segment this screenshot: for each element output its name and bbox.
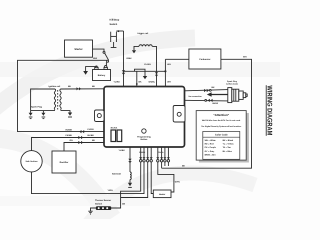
svg-text:GY = Gray: GY = Gray xyxy=(205,150,216,153)
svg-text:Switch: Switch xyxy=(110,23,118,26)
svg-text:GN: GN xyxy=(122,203,126,206)
wire carb right loop xyxy=(162,59,252,168)
svg-text:BK: BK xyxy=(139,80,143,83)
connector J1 xyxy=(114,57,133,84)
watermark swirl background xyxy=(0,38,255,225)
svg-text:WH = White: WH = White xyxy=(205,139,217,142)
svg-text:GN: GN xyxy=(70,139,74,142)
svg-text:Solenoid: Solenoid xyxy=(112,173,122,176)
ground battery xyxy=(83,67,96,75)
wire main battery vertical xyxy=(123,31,125,87)
ECU pins group A xyxy=(139,147,153,163)
node bus-carb junction xyxy=(164,70,166,72)
svg-text:GN YL: GN YL xyxy=(158,151,165,154)
spark plug right xyxy=(226,80,247,103)
svg-text:BK: BK xyxy=(212,86,216,89)
svg-text:Switch: Switch xyxy=(95,202,103,205)
fuse F1 F2 xyxy=(111,126,122,141)
spark plug left pair xyxy=(29,106,46,119)
svg-text:WH: WH xyxy=(167,63,171,66)
wire stator bottom loop xyxy=(32,163,145,194)
svg-text:R/BK: R/BK xyxy=(127,57,133,60)
svg-text:PK/BK: PK/BK xyxy=(66,134,73,137)
svg-text:WH: WH xyxy=(243,56,247,59)
svg-text:YL/WH: YL/WH xyxy=(144,63,151,66)
ECU pins group B xyxy=(156,147,170,166)
svg-text:YL/RD: YL/RD xyxy=(114,80,121,83)
svg-text:GN/BL: GN/BL xyxy=(149,80,156,83)
ignition coil T1 xyxy=(31,85,73,117)
svg-text:30 20A: 30 20A xyxy=(111,126,118,129)
wire B1 to heater right xyxy=(158,163,174,192)
svg-text:Rectifier: Rectifier xyxy=(60,161,69,164)
wire A4 to heater xyxy=(151,163,153,194)
wire left frame top xyxy=(18,60,108,131)
svg-text:PW/BK: PW/BK xyxy=(139,151,146,154)
svg-text:BK: BK xyxy=(182,164,186,167)
svg-text:BL = Blue: BL = Blue xyxy=(223,150,233,153)
wire A3 xyxy=(121,163,148,198)
rectifier xyxy=(52,151,76,173)
svg-text:Battery: Battery xyxy=(98,74,106,77)
wire coil output xyxy=(61,88,105,90)
battery BT1 xyxy=(93,66,111,81)
ECU module U1 xyxy=(104,87,185,148)
wire rectifier line1 chevrons xyxy=(79,130,84,133)
svg-text:BK/W: BK/W xyxy=(213,102,219,105)
svg-text:PU/PK: PU/PK xyxy=(88,128,95,131)
svg-text:Heater: Heater xyxy=(159,193,166,196)
wire switch to battery xyxy=(105,62,107,67)
wire bus xyxy=(124,70,166,72)
stator G1 xyxy=(21,151,42,172)
mounting tab left xyxy=(95,110,105,122)
svg-text:Safe Surface: Safe Surface xyxy=(25,160,38,163)
svg-text:(yellow boot): (yellow boot) xyxy=(226,82,238,85)
svg-text:BK: BK xyxy=(68,85,72,88)
svg-text:BR/W = Brn: BR/W = Brn xyxy=(205,153,217,156)
attention panel xyxy=(196,111,249,163)
svg-text:WHITE Wire from the ECU Port i: WHITE Wire from the ECU Port is not used… xyxy=(202,119,241,122)
svg-text:Color Code: Color Code xyxy=(215,134,229,137)
wire kill switch to main vertical xyxy=(116,30,123,32)
svg-text:Starter: Starter xyxy=(74,48,82,51)
node stub dot xyxy=(136,83,138,85)
programming button xyxy=(137,129,151,141)
no-connection arrow xyxy=(189,92,228,98)
svg-text:WH: WH xyxy=(167,80,171,83)
svg-text:Kill/Stop: Kill/Stop xyxy=(110,19,120,22)
svg-text:Button: Button xyxy=(141,138,148,141)
wire rectifier line3 xyxy=(64,143,104,152)
wire stub to ECU xyxy=(136,71,138,86)
svg-text:Spark Plug: Spark Plug xyxy=(31,106,43,109)
ground thermo xyxy=(88,208,96,214)
svg-text:TA = Tan: TA = Tan xyxy=(223,146,232,149)
svg-text:Y/GN: Y/GN xyxy=(108,189,114,192)
kill/stop switch S2 xyxy=(110,19,120,48)
svg-text:YL/BK: YL/BK xyxy=(119,149,126,152)
svg-text:R/W: R/W xyxy=(93,57,97,60)
svg-text:trigger coil: trigger coil xyxy=(138,32,149,35)
solenoid wire xyxy=(112,147,132,187)
heater box xyxy=(153,190,171,198)
key switch S1 xyxy=(93,51,109,62)
color code table xyxy=(203,132,240,160)
svg-text:BL/BK: BL/BK xyxy=(88,134,95,137)
carburetor xyxy=(165,49,221,69)
svg-text:BK: BK xyxy=(92,139,96,142)
svg-text:BK: BK xyxy=(92,85,96,88)
svg-text:RD = Red: RD = Red xyxy=(205,143,215,146)
light band artifact xyxy=(0,62,280,77)
mounting tab right xyxy=(173,106,185,123)
ECU right wires to plug xyxy=(185,90,229,91)
svg-text:Programming: Programming xyxy=(137,135,151,138)
wire A1 to thermo xyxy=(111,163,140,208)
svg-text:G/PU: G/PU xyxy=(175,181,181,184)
ground bus tap xyxy=(135,69,148,79)
thermo sensor switch xyxy=(95,199,126,210)
svg-text:PU = Purple: PU = Purple xyxy=(205,146,217,149)
svg-text:"Attention": "Attention" xyxy=(213,113,230,117)
trigger coil L1 xyxy=(132,32,158,86)
svg-text:No connection: No connection xyxy=(189,95,203,98)
wire starter to switch xyxy=(93,49,105,51)
svg-text:Ignition coil: Ignition coil xyxy=(49,85,61,88)
svg-text:Thermo Sensor: Thermo Sensor xyxy=(95,199,111,202)
svg-text:Carburetor: Carburetor xyxy=(199,58,210,61)
starter M1 xyxy=(65,40,93,57)
svg-text:The Digital Security System wi: The Digital Security System will not fun… xyxy=(201,125,242,128)
svg-text:RD/BK: RD/BK xyxy=(66,129,73,132)
wire carb vertical xyxy=(164,59,166,86)
svg-text:BK = Black: BK = Black xyxy=(223,139,234,142)
wire stator line2 xyxy=(32,138,105,151)
wire B2 up from loop xyxy=(161,163,163,168)
svg-text:YL = Yellow: YL = Yellow xyxy=(223,143,234,146)
